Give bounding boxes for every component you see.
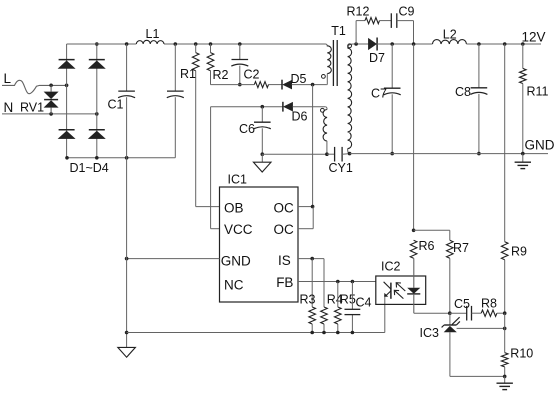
svg-text:OC: OC: [274, 200, 295, 215]
wire IC3 anode: [449, 332, 451, 376]
svg-text:C2: C2: [244, 68, 260, 82]
transformer T1 primary winding: [327, 46, 331, 74]
earth ground (output): [515, 162, 531, 168]
junction C1 bottom: [125, 156, 129, 160]
resistor R1: [192, 53, 199, 71]
label RV1: [20, 100, 44, 114]
wire node to C5: [450, 312, 467, 314]
pin label OB: [224, 200, 244, 215]
svg-text:OC: OC: [274, 222, 295, 237]
junction R8-R9: [503, 311, 507, 315]
polarity dot secondary: [348, 44, 352, 48]
capacitor CY1: [335, 147, 343, 162]
junction CY1 right: [348, 152, 352, 156]
wire C6 ground stem: [261, 154, 263, 162]
svg-text:T1: T1: [331, 24, 346, 38]
transistor IC2 phototransistor: [384, 282, 391, 299]
resistor R2: [207, 53, 214, 71]
resistor R3: [309, 307, 316, 324]
svg-text:C9: C9: [399, 5, 415, 19]
svg-text:GND: GND: [525, 138, 555, 153]
wire primary ground vertical: [126, 158, 128, 347]
capacitor filter (unlabeled): [167, 91, 184, 98]
wire bottom rail: [127, 332, 385, 334]
wire R9-R10 link: [504, 313, 506, 353]
wire bridge bottom rail: [67, 157, 176, 159]
earth ground (reference): [497, 383, 513, 389]
wire R9 line lower: [504, 260, 506, 313]
wire CY1 right lead: [342, 153, 350, 156]
polarity dot aux: [321, 108, 325, 112]
label IC2: [381, 260, 401, 274]
label D6: [292, 110, 308, 124]
svg-text:VCC: VCC: [224, 222, 253, 237]
junction row A node: [448, 311, 452, 315]
wire 12V rail: [466, 43, 541, 45]
resistor R8: [481, 310, 497, 316]
resistor R9: [501, 242, 508, 260]
svg-text:C6: C6: [239, 122, 255, 136]
wire GND rail: [350, 153, 548, 155]
wire R11 top lead: [522, 44, 524, 68]
junction C4 bottom: [351, 331, 355, 335]
label L1: [146, 27, 160, 41]
capacitor C5: [467, 306, 472, 321]
wire R10 bottom: [504, 367, 506, 377]
wire R11 bottom lead: [522, 84, 524, 154]
svg-text:D5: D5: [291, 72, 307, 86]
wire IS: [298, 258, 324, 260]
svg-text:12V: 12V: [522, 29, 546, 44]
junction C4 top: [351, 280, 355, 284]
svg-text:R3: R3: [300, 292, 316, 306]
diode D2 (bridge top-right): [89, 60, 105, 69]
wire R6-R7 bridge: [414, 230, 450, 240]
pin label IS: [278, 253, 291, 268]
net label L: [4, 71, 12, 86]
wire IC3 bottom rail: [450, 375, 505, 377]
svg-text:R10: R10: [510, 346, 533, 360]
svg-text:R8: R8: [481, 297, 497, 311]
inductor L1: [136, 40, 164, 44]
svg-text:IS: IS: [278, 253, 291, 268]
wire HV top rail segment B: [164, 43, 326, 45]
svg-text:N: N: [4, 100, 14, 115]
label R5: [340, 292, 356, 306]
resistor R10: [501, 353, 508, 367]
wire OC lower: [298, 207, 313, 229]
junction R1 top: [194, 42, 198, 46]
pin label GND: [221, 254, 251, 269]
junction C2 top: [238, 42, 242, 46]
junction C6 top: [261, 105, 265, 109]
wire C1 leads: [126, 44, 128, 158]
junction drain top: [311, 83, 315, 87]
wire C8 leads: [478, 44, 480, 154]
resistor R12: [365, 18, 380, 24]
wire filter cap leads: [174, 44, 176, 158]
label D7: [369, 51, 385, 65]
junction OC node: [311, 205, 315, 209]
varistor RV1: [44, 85, 59, 114]
net label N: [4, 100, 14, 115]
capacitor C7: [384, 88, 401, 95]
junction IS node: [310, 257, 314, 261]
wire earth stem 2: [504, 376, 506, 382]
wire R2 top lead: [210, 44, 212, 53]
transistor IC3 (TL431 shunt regulator): [442, 317, 460, 332]
wire rail to IC2 emitter: [384, 297, 386, 333]
capacitor C1: [118, 91, 135, 98]
junction C2 bottom: [238, 83, 242, 87]
net label GND: [525, 138, 555, 153]
wire R12 to C9: [380, 20, 392, 22]
svg-text:NC: NC: [224, 278, 244, 293]
wire FB: [298, 281, 376, 283]
pin label OC (lower): [274, 222, 295, 237]
label R7: [453, 241, 469, 255]
wire R1 to OB: [196, 71, 220, 207]
svg-text:C4: C4: [356, 296, 372, 310]
junction L-bridge: [65, 84, 69, 88]
transformer T1 core: [333, 40, 337, 86]
svg-text:OB: OB: [224, 200, 244, 215]
label R4: [327, 292, 343, 306]
wire R7 lower: [449, 258, 451, 313]
wire R4: [323, 259, 325, 333]
transformer T1 aux winding: [323, 110, 327, 142]
op-amp IC2 (optocoupler box): [376, 276, 426, 304]
capacitor C9: [391, 13, 397, 28]
wire IC3 cathode lead: [449, 313, 451, 325]
ground symbol (primary): [118, 347, 136, 357]
junction GND-vertical: [125, 257, 129, 261]
wire D7 cathode rail: [377, 43, 432, 45]
svg-text:GND: GND: [221, 254, 251, 269]
label R12: [347, 5, 370, 19]
svg-text:C5: C5: [454, 297, 470, 311]
junction R6 node: [412, 229, 416, 233]
wire primary bottom lead: [326, 74, 329, 85]
label C1: [108, 97, 124, 111]
label R8: [481, 297, 497, 311]
svg-text:R12: R12: [347, 5, 370, 19]
resistor R6: [410, 240, 417, 258]
capacitor C6: [254, 122, 271, 129]
svg-text:C8: C8: [455, 85, 471, 99]
diode D7: [368, 38, 377, 51]
wire REF row: [457, 327, 505, 329]
net label 12V: [522, 29, 546, 44]
svg-text:D6: D6: [292, 110, 308, 124]
pin label FB: [276, 275, 293, 290]
wire R2 bottom lead: [210, 71, 212, 85]
svg-text:R9: R9: [511, 244, 527, 258]
label D1~D4: [70, 161, 109, 175]
junction CY1 left: [325, 152, 329, 156]
wire C5 to R8: [472, 312, 482, 314]
junction R2 top: [209, 42, 213, 46]
junction L-RV1: [49, 84, 53, 88]
junction N-bridge: [95, 112, 99, 116]
label C8: [455, 85, 471, 99]
label IC3: [420, 326, 440, 340]
wire C7 leads: [391, 44, 393, 154]
label R1: [180, 67, 196, 81]
wire secondary rail: [353, 43, 369, 45]
svg-text:D1~D4: D1~D4: [70, 161, 109, 175]
wire D5 row: [211, 84, 283, 86]
wire C6 leads: [261, 107, 263, 155]
resistor snubber (unlabeled): [254, 82, 268, 88]
junction bottom-right-column: [95, 156, 99, 160]
label D5: [291, 72, 307, 86]
wire R1 top lead: [195, 44, 197, 53]
wire feed line down: [413, 44, 415, 230]
wire HV top rail segment A: [67, 43, 137, 45]
diode D1 (bridge top-left): [58, 60, 74, 69]
pin label OC (upper): [274, 200, 295, 215]
pin label NC: [224, 278, 244, 293]
wire D6 row: [211, 106, 283, 108]
transformer T1 secondary winding: [348, 48, 352, 148]
label R9: [511, 244, 527, 258]
junction R11-GND: [521, 152, 525, 156]
junction 12V terminal: [521, 42, 525, 46]
wire CY1 left lead: [327, 153, 335, 155]
light arrows IC2: [394, 283, 405, 299]
resistor R11: [520, 68, 527, 83]
wire secondary bottom lead: [348, 149, 350, 154]
svg-text:C7: C7: [371, 86, 387, 100]
wire snubber left: [356, 21, 365, 44]
svg-text:D7: D7: [369, 51, 385, 65]
svg-text:R11: R11: [527, 85, 549, 99]
label C5: [454, 297, 470, 311]
wire aux top corner: [325, 107, 327, 110]
svg-text:R6: R6: [419, 239, 435, 253]
junction R9 top: [503, 42, 507, 46]
wire C4 leads: [351, 282, 353, 333]
svg-text:FB: FB: [276, 275, 293, 290]
label C4: [356, 296, 372, 310]
wire L input with inrush squiggle: [2, 80, 67, 93]
svg-text:IC3: IC3: [420, 326, 440, 340]
svg-text:L2: L2: [443, 27, 457, 41]
junction C7 bottom: [390, 152, 394, 156]
junction R4 bottom: [322, 331, 326, 335]
wire C9 right: [397, 21, 414, 44]
label IC1: [228, 172, 248, 186]
diode D5: [282, 80, 292, 90]
junction filter cap top: [174, 42, 178, 46]
label R2: [213, 68, 229, 82]
label C7: [371, 86, 387, 100]
junction C8 bottom: [477, 152, 481, 156]
label R3: [300, 292, 316, 306]
capacitor C4: [345, 309, 361, 314]
junction R10 bottom: [503, 375, 507, 379]
junction bridge top-right: [95, 42, 99, 46]
junction ground-bottom-rail: [125, 331, 129, 335]
op-amp IC1 (PWM controller box): [220, 187, 299, 302]
diode D4 (bridge bottom-right): [89, 130, 105, 139]
wire R8 to R9 line: [497, 312, 505, 314]
wire primary top corner: [326, 44, 328, 47]
junction C1 top: [125, 42, 129, 46]
LED IC2: [407, 258, 420, 313]
label R11: [527, 85, 549, 99]
wire drain line: [312, 85, 314, 207]
wire IC1 GND: [127, 258, 220, 260]
wire C6 rail to CY1: [262, 153, 327, 155]
wire D6 anode to aux winding: [293, 106, 326, 108]
wire VCC pin to D6 row: [211, 107, 220, 229]
resistor R5: [335, 307, 342, 324]
wire bridge right column: [96, 44, 98, 158]
junction N-RV1: [49, 112, 53, 116]
svg-text:C1: C1: [108, 97, 124, 111]
wire OC upper: [298, 206, 313, 208]
svg-text:R7: R7: [453, 241, 469, 255]
wire R9 line upper: [504, 44, 506, 242]
ground symbol (C6): [253, 162, 271, 172]
svg-text:CY1: CY1: [329, 161, 353, 175]
diode D3 (bridge bottom-left): [58, 130, 74, 139]
junction bottom-left: [65, 156, 69, 160]
junction C7 top: [390, 42, 394, 46]
resistor R4: [321, 307, 328, 324]
inductor L2: [433, 40, 467, 44]
svg-text:R2: R2: [213, 68, 229, 82]
resistor R7: [447, 240, 454, 258]
junction R5 top: [336, 280, 340, 284]
svg-text:RV1: RV1: [20, 100, 44, 114]
wire secondary top lead: [348, 44, 353, 48]
wire R5: [337, 282, 339, 333]
label C9: [399, 5, 415, 19]
junction REF node: [503, 327, 507, 331]
svg-text:L1: L1: [146, 27, 160, 41]
wire bridge left column: [66, 44, 68, 158]
capacitor C2: [231, 60, 248, 67]
label C6: [239, 122, 255, 136]
wire N input: [2, 113, 97, 115]
svg-text:L: L: [4, 71, 12, 86]
junction C9-feed: [412, 42, 416, 46]
svg-text:R1: R1: [180, 67, 196, 81]
diode D6: [283, 102, 293, 112]
wire earth stem: [522, 154, 524, 162]
label R10: [510, 346, 533, 360]
junction C6 bottom: [261, 152, 265, 156]
label T1: [331, 24, 346, 38]
label C2: [244, 68, 260, 82]
junction R5 bottom: [336, 331, 340, 335]
junction snubber branch: [354, 42, 358, 46]
svg-text:IC1: IC1: [228, 172, 248, 186]
junction R3 bottom: [310, 331, 314, 335]
wire C2 leads: [239, 44, 241, 85]
label R6: [419, 239, 435, 253]
label CY1: [329, 161, 353, 175]
wire LED to node: [414, 312, 450, 314]
svg-text:R5: R5: [340, 292, 356, 306]
junction C8 top: [477, 42, 481, 46]
wire D5 anode to drain node: [292, 84, 327, 86]
label L2: [443, 27, 457, 41]
svg-text:IC2: IC2: [381, 260, 401, 274]
capacitor C8: [470, 88, 487, 95]
wire aux bottom lead: [326, 141, 328, 154]
wire R3: [311, 259, 313, 333]
pin label VCC: [224, 222, 253, 237]
polarity dot primary: [322, 75, 326, 79]
